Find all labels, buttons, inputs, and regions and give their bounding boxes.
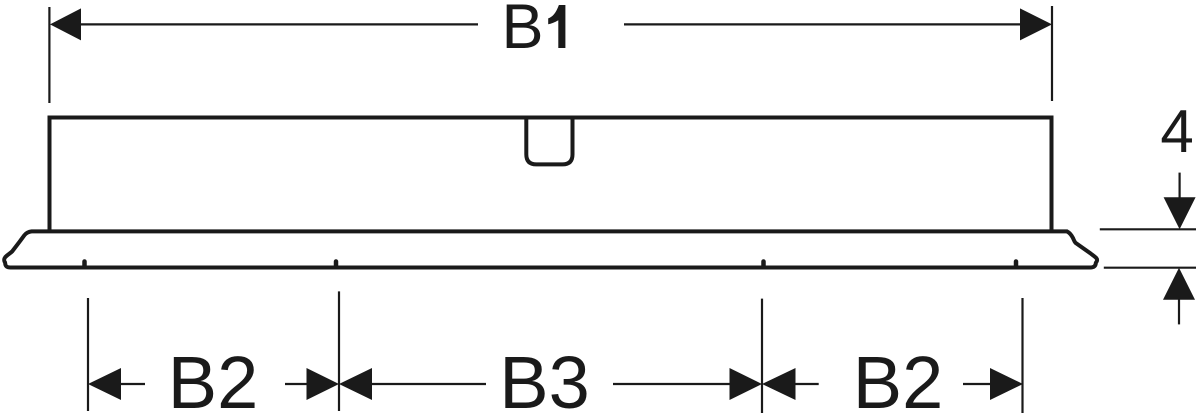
arrowhead 4 down bbox=[1164, 197, 1196, 229]
notch U-profile bbox=[526, 118, 572, 165]
arrowhead 4 up bbox=[1163, 268, 1195, 300]
4-dim stem top bbox=[1178, 173, 1180, 198]
arrowhead B2L outer bbox=[88, 368, 121, 400]
extension line right of B1 bbox=[1051, 6, 1053, 101]
body outline bbox=[50, 118, 1052, 232]
tick mark 3 bbox=[761, 262, 766, 267]
arrowhead B2R inner bbox=[762, 368, 796, 400]
extension line B2 right bbox=[1021, 298, 1023, 413]
arrowhead B2L inner bbox=[307, 368, 340, 400]
svg-text:B2: B2 bbox=[853, 341, 944, 416]
arrowhead B3 right bbox=[730, 368, 763, 400]
arrowhead B2R outer bbox=[990, 368, 1023, 400]
dimension line bottom bbox=[120, 383, 991, 385]
tick mark 2 bbox=[334, 262, 339, 267]
4-dim stem bottom bbox=[1178, 299, 1180, 324]
tick mark 4 bbox=[1014, 262, 1019, 267]
svg-text:B3: B3 bbox=[499, 341, 590, 416]
4-dim ext line bottom bbox=[1104, 267, 1196, 269]
dimension line B1 bbox=[80, 23, 1021, 25]
4-dim ext line top bbox=[1100, 228, 1196, 230]
label B1 digit 1 bbox=[548, 5, 565, 48]
extension line B2 left bbox=[87, 298, 89, 411]
svg-text:B2: B2 bbox=[168, 341, 259, 416]
arrowhead B1 left bbox=[50, 8, 81, 40]
flange profile bbox=[4, 231, 1097, 267]
arrowhead B1 right bbox=[1020, 8, 1052, 40]
svg-text:4: 4 bbox=[1160, 98, 1193, 165]
svg-text:B: B bbox=[502, 0, 544, 62]
extension line B3/B2 bbox=[761, 299, 763, 413]
tick mark 1 bbox=[82, 262, 87, 267]
extension line left of B1 bbox=[48, 7, 50, 103]
arrowhead B3 left bbox=[339, 368, 372, 400]
extension line B2/B3 bbox=[338, 291, 340, 411]
